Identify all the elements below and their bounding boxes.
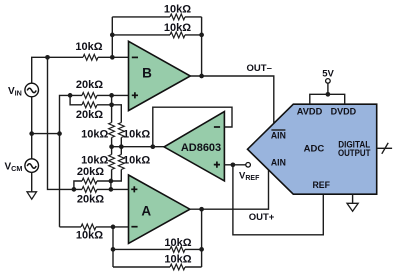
wire: ladder column 1 upper — [111, 105, 113, 147]
wire: B feedback line 2 — [112, 34, 201, 36]
wire: A inverting input line — [60, 226, 129, 228]
wire: mid reference line to AD8603 output — [112, 146, 165, 148]
wire: A feedback line 2 — [113, 266, 202, 268]
wire: B output to ADC AIN-bar (OUT-) — [190, 76, 274, 124]
junction 5V split — [326, 92, 331, 97]
ADC digital output bus line — [377, 147, 392, 149]
ADC digital output bus slash — [382, 143, 388, 154]
supply 5V terminal — [326, 79, 331, 84]
junction ladder bottom — [109, 179, 114, 184]
resistor 10k B feedback 1 — [170, 14, 185, 20]
svg-text:10kΩ: 10kΩ — [123, 155, 150, 167]
resistor 10k ladder upper right — [118, 123, 124, 138]
svg-text:10kΩ: 10kΩ — [164, 237, 191, 249]
svg-text:20kΩ: 20kΩ — [76, 79, 103, 91]
resistor 20k upper 1 — [82, 93, 97, 99]
resistor 10k ladder lower right — [118, 155, 124, 170]
junction A feedback left — [111, 247, 116, 252]
junction ladder top node — [109, 102, 114, 107]
wire: branch x=47.5 from VIN node down to lower 20k pair — [48, 57, 83, 189]
junction A- node — [111, 225, 116, 230]
svg-text:REF: REF — [312, 180, 330, 191]
junction VIN-VCM link left — [29, 131, 34, 136]
resistor 20k lower 2 — [82, 187, 97, 193]
junction B output — [199, 74, 204, 79]
svg-text:ADC: ADC — [304, 144, 325, 155]
op-amp B minus marker — [132, 56, 138, 58]
terminal VREF open circle — [246, 163, 251, 168]
svg-text:10kΩ: 10kΩ — [164, 254, 191, 266]
junction VIN/branch — [45, 55, 50, 60]
op-amp B plus marker — [132, 92, 138, 98]
svg-text:10kΩ: 10kΩ — [76, 230, 103, 242]
junction VIN-VCM link right — [57, 131, 62, 136]
op-amp A minus marker — [131, 226, 137, 228]
svg-text:VCM: VCM — [5, 162, 23, 174]
svg-text:OUTPUT: OUTPUT — [338, 148, 371, 158]
junction B feedback right mid — [199, 33, 204, 38]
svg-text:10kΩ: 10kΩ — [164, 22, 191, 34]
op-amp U1 minus marker — [214, 126, 220, 128]
svg-text:20kΩ: 20kΩ — [77, 166, 104, 178]
resistor 10k ladder lower left — [109, 155, 115, 170]
wire: VIN bottom to VCM top — [31, 97, 33, 159]
svg-text:10kΩ: 10kΩ — [123, 128, 150, 140]
op-amp U1 plus marker — [214, 162, 220, 168]
wire: A feedback left vertical — [112, 227, 114, 267]
svg-text:DVDD: DVDD — [331, 107, 357, 118]
wire: ladder column 1 lower — [111, 147, 113, 181]
ground ADC — [352, 194, 354, 203]
svg-text:20kΩ: 20kΩ — [77, 193, 104, 205]
svg-text:10kΩ: 10kΩ — [75, 41, 102, 53]
op-amp B — [129, 41, 191, 110]
wire: A feedback right vertical — [201, 209, 203, 267]
wire: 20k upper 2 link — [70, 95, 112, 104]
resistor 20k upper 2 — [82, 102, 97, 108]
wire: U1 feedback loop — [153, 107, 232, 147]
resistor 20k lower 1 — [82, 178, 97, 184]
wire: 20k lower 1 link — [74, 181, 111, 189]
junction 20k upper left — [68, 93, 73, 98]
junction mid col2 — [119, 144, 124, 149]
wire: 5V to AVDD/DVDD — [310, 83, 345, 104]
wire: ladder column 2 upper — [112, 105, 122, 147]
svg-text:10kΩ: 10kΩ — [81, 155, 108, 167]
resistor 10k A feedback 1 — [170, 247, 185, 253]
junction A feedback right — [199, 247, 204, 252]
ADC block — [248, 104, 377, 194]
svg-text:AD8603: AD8603 — [181, 142, 221, 154]
wire: U1 plus input to VREF terminal — [224, 164, 245, 166]
svg-text:OUT–: OUT– — [247, 63, 272, 74]
junction A output — [199, 207, 204, 212]
junction VREF node — [231, 162, 236, 167]
junction 20k lower left — [72, 187, 77, 192]
ground VCM — [31, 172, 33, 191]
junction mid col1 — [109, 144, 114, 149]
wire: VREF node to ADC REF pin — [233, 165, 323, 235]
wire: B feedback top line 1 — [112, 16, 201, 18]
resistor 10k ladder upper left — [109, 123, 115, 138]
wire: B+ node down to ladder top — [111, 95, 113, 104]
wire: A feedback line 1 — [113, 248, 202, 250]
svg-text:B: B — [142, 65, 152, 80]
resistor 10k A input — [81, 224, 96, 230]
wire: VIN top terminal to B inverting input — [32, 57, 129, 83]
svg-text:A: A — [141, 203, 151, 218]
source VIN — [25, 83, 39, 97]
wire: B feedback right vertical — [201, 17, 203, 76]
junction mid feedback branch — [150, 144, 155, 149]
wire: ladder column 2 lower — [111, 147, 121, 181]
svg-text:VIN: VIN — [8, 86, 22, 98]
svg-text:5V: 5V — [322, 69, 334, 80]
source VCM — [25, 159, 39, 173]
svg-text:10kΩ: 10kΩ — [81, 128, 108, 140]
wire: VCM link line to x=59.5 rail — [32, 133, 60, 135]
wire: A+ input line — [97, 181, 129, 189]
svg-text:AIN: AIN — [271, 158, 286, 169]
resistor 10k A feedback 2 — [170, 264, 185, 270]
svg-text:20kΩ: 20kΩ — [76, 109, 103, 121]
junction B+ node — [109, 93, 114, 98]
op-amp U1 AD8603 — [164, 112, 224, 181]
svg-text:AIN: AIN — [271, 131, 286, 142]
resistor 10k B feedback 2 — [170, 32, 185, 38]
op-amp A — [129, 175, 190, 243]
wire: B feedback left vertical — [111, 17, 113, 57]
wire: A output to ADC AIN (OUT+) — [190, 170, 269, 209]
op-amp A plus marker — [131, 186, 137, 192]
junction A+ node — [109, 187, 114, 192]
junction B- input node — [110, 55, 115, 60]
wire: x=59.5 rail from top 20k pair down to A inverting resistor — [60, 95, 129, 227]
junction B- feedback mid — [110, 33, 115, 38]
resistor 10k B input — [83, 54, 98, 60]
svg-text:10kΩ: 10kΩ — [164, 3, 191, 15]
ADC AIN-bar overline — [271, 129, 285, 131]
svg-text:AVDD: AVDD — [297, 107, 323, 118]
svg-text:OUT+: OUT+ — [249, 212, 275, 223]
